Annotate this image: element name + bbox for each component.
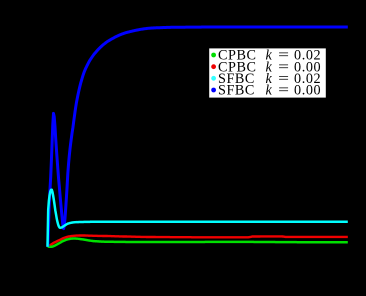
curve SFBC k=0.00 (blue) (48, 27, 348, 247)
curve CPBC k=0.00 (red) (48, 236, 348, 247)
legend marker SFBC k=0.00 (211, 88, 216, 93)
legend marker CPBC k=0.02 (211, 53, 216, 58)
legend box (209, 48, 326, 97)
legend marker SFBC k=0.02 (211, 76, 216, 81)
legend marker CPBC k=0.00 (211, 64, 216, 69)
curve SFBC k=0.02 (cyan) (48, 190, 348, 247)
curve CPBC k=0.02 (green) (48, 239, 348, 247)
svg-text:SFBCk=0.00: SFBCk=0.00 (218, 83, 321, 99)
